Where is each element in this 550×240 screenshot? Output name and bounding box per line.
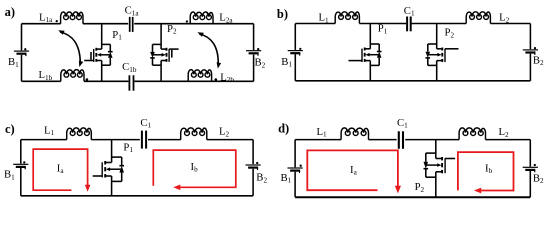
svg-text:d): d) [278,122,289,136]
svg-text:c): c) [5,122,15,136]
svg-text:a): a) [5,5,15,19]
svg-text:b): b) [277,7,288,21]
